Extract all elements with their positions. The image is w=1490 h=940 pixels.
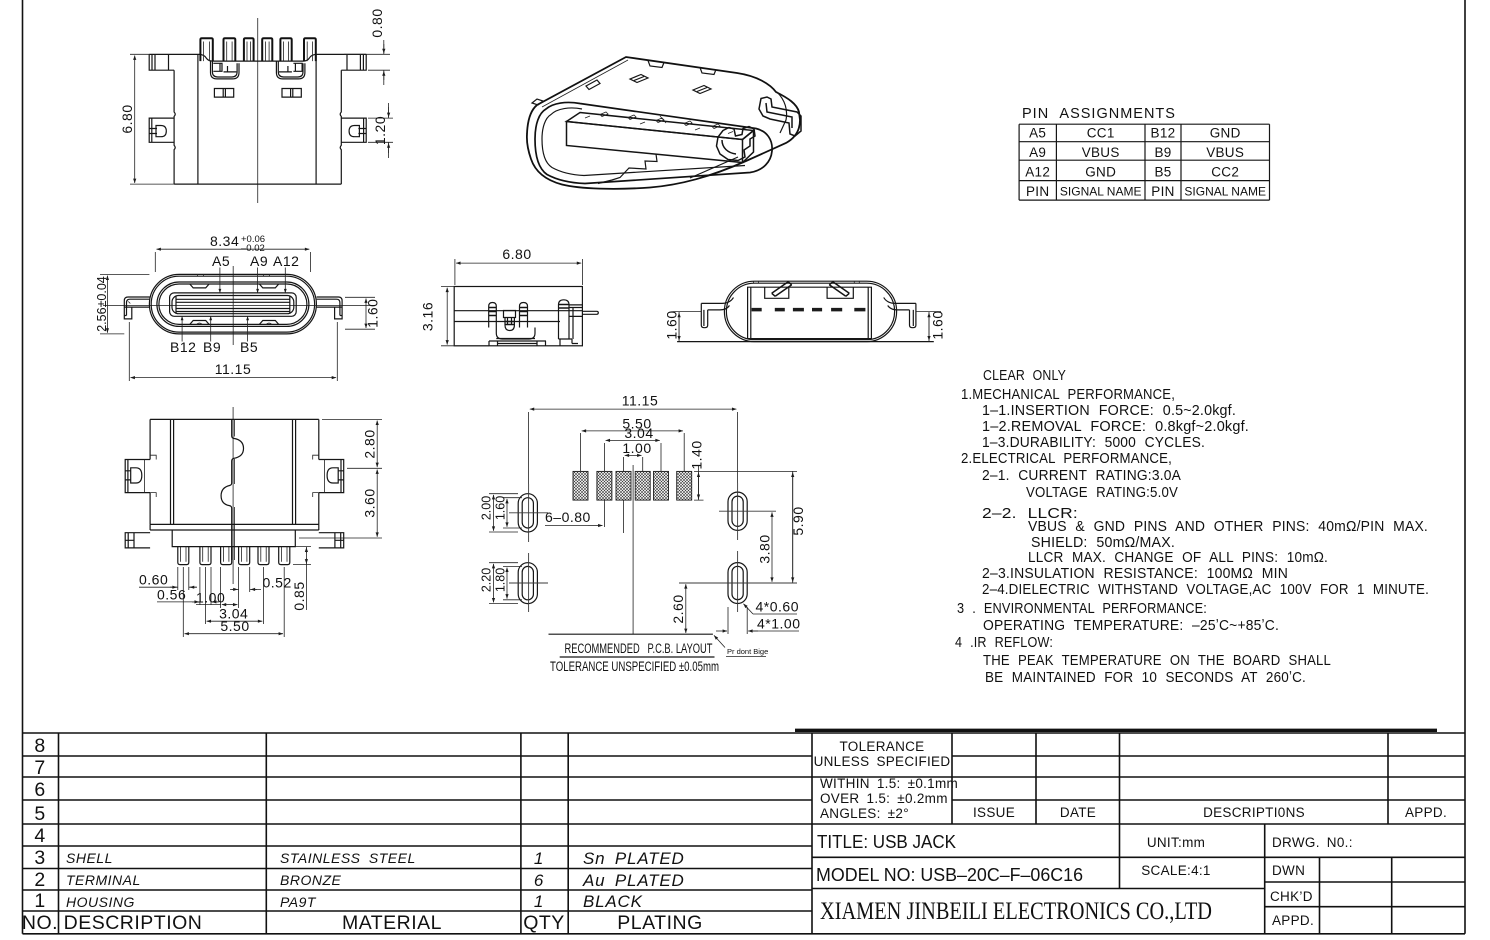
svg-text:PIN: PIN: [1151, 184, 1174, 199]
svg-text:LLCR MAX. CHANGE OF ALL P: LLCR MAX. CHANGE OF ALL PINS: 10mΩ.: [1028, 549, 1328, 566]
svg-text:B9: B9: [203, 339, 221, 355]
svg-text:5: 5: [34, 803, 45, 825]
view A right U-pocket: [276, 61, 305, 79]
svg-text:5.50: 5.50: [220, 618, 249, 634]
view E internal horizontals: [454, 311, 582, 322]
svg-text:OPERATING TEMPERATURE: –25ʼC: OPERATING TEMPERATURE: –25ʼC~+85ʼC.: [983, 617, 1279, 634]
view A teeth inner walls: [204, 42, 313, 62]
hole upper-right: [728, 492, 747, 530]
svg-text:SCALE:4:1: SCALE:4:1: [1141, 863, 1211, 878]
view B top notches: [190, 284, 279, 288]
svg-text:GND: GND: [1210, 126, 1241, 141]
svg-text:A12: A12: [273, 253, 299, 269]
view A outer body edges: [174, 70, 341, 184]
isometric tongue top face: [567, 113, 754, 140]
svg-text:B5: B5: [1154, 165, 1171, 180]
svg-text:11.15: 11.15: [215, 361, 252, 377]
view A centerline: [257, 18, 259, 203]
svg-text:4: 4: [34, 825, 45, 847]
dimension 3.80 (pcb): [771, 512, 773, 581]
svg-text:UNLESS SPECIFIED: UNLESS SPECIFIED: [814, 754, 951, 769]
isometric left cap tab: [532, 99, 543, 105]
svg-text:Au PLATED: Au PLATED: [582, 871, 685, 890]
isometric back edge notch 1: [648, 61, 664, 68]
dimension 2.60 (pcb): [685, 584, 687, 633]
svg-text:PLATING: PLATING: [617, 912, 703, 934]
svg-text:B9: B9: [1154, 145, 1171, 160]
isometric bottom-right inner edge: [690, 157, 738, 178]
svg-text:2–1. CURRENT RATING:3.0A: 2–1. CURRENT RATING:3.0A: [982, 467, 1181, 484]
view C left bottom wing: [125, 533, 150, 548]
sheet frame bottom border: [23, 933, 1466, 935]
dimension 5.50: [183, 567, 284, 637]
view F right notch box: [827, 287, 853, 298]
view A teeth row: [200, 38, 315, 61]
isometric back edge notch 2: [700, 68, 716, 75]
svg-text:NO.: NO.: [22, 912, 58, 934]
svg-text:SHELL: SHELL: [66, 850, 113, 866]
dimension 11.15: [129, 322, 337, 381]
label 6-0.80: [604, 501, 623, 534]
svg-text:DWN: DWN: [1272, 863, 1305, 878]
isometric shell outer outline: [527, 57, 800, 189]
pcb ground line: [549, 633, 713, 635]
svg-text:ISSUE: ISSUE: [973, 805, 1015, 820]
svg-text:6–0.80: 6–0.80: [545, 509, 591, 525]
svg-text:CLEAR ONLY: CLEAR ONLY: [983, 367, 1066, 384]
svg-text:DESCRIPTI0NS: DESCRIPTI0NS: [1203, 805, 1305, 820]
dimension 2.56±0.04: [100, 274, 149, 334]
view E latch base and feet: [489, 339, 546, 346]
svg-text:PIN ASSIGNMENTS: PIN ASSIGNMENTS: [1022, 106, 1176, 122]
svg-text:BLACK: BLACK: [583, 892, 643, 911]
svg-text:APPD.: APPD.: [1405, 805, 1447, 820]
view F left notch box: [765, 287, 789, 298]
svg-text:MATERIAL: MATERIAL: [342, 912, 442, 934]
view A right window: [282, 89, 301, 98]
view B right flange: [317, 297, 343, 319]
dimension 1.00 (pcb): [624, 457, 643, 471]
isometric front rim inner: [542, 108, 745, 176]
svg-text:1–1.INSERTION FORCE: 0.5~2.0: 1–1.INSERTION FORCE: 0.5~2.0kgf.: [982, 402, 1236, 419]
view E body outline: [454, 287, 582, 346]
dimension 1.00: [221, 567, 239, 608]
svg-text:DRWG. N0.:: DRWG. N0.:: [1272, 835, 1353, 850]
isometric top latch window 2: [693, 86, 711, 94]
svg-text:3.16: 3.16: [420, 302, 436, 331]
dimension 6.80 (view E): [455, 259, 583, 285]
svg-text:TITLE: USB JACK: TITLE: USB JACK: [817, 831, 957, 852]
svg-text:APPD.: APPD.: [1272, 913, 1314, 928]
svg-text:5.90: 5.90: [790, 506, 806, 535]
svg-text:BRONZE: BRONZE: [280, 872, 342, 888]
view B left flange: [124, 297, 150, 319]
svg-text:4*1.00: 4*1.00: [757, 616, 800, 632]
view F outer shell stadium: [724, 281, 896, 341]
view A right mounting tab: [341, 54, 366, 70]
isometric tongue front face: [567, 122, 754, 163]
svg-text:–0.02: –0.02: [241, 243, 265, 254]
dimension 0.80: [344, 40, 390, 85]
isometric upper hook: [759, 97, 801, 136]
isometric top latch window 1: [630, 75, 648, 83]
view A inner shell edges: [198, 54, 316, 184]
view B vertical centerline: [232, 266, 234, 345]
svg-text:3 . ENVIRONMENTAL PERFORMANC: 3 . ENVIRONMENTAL PERFORMANCE:: [957, 600, 1207, 617]
svg-text:OVER 1.5: ±0.2mm: OVER 1.5: ±0.2mm: [820, 791, 948, 806]
svg-text:1.60: 1.60: [494, 496, 508, 520]
svg-text:1: 1: [534, 892, 544, 911]
sheet frame left border: [22, 0, 24, 934]
svg-text:3: 3: [34, 847, 45, 869]
svg-text:0.52: 0.52: [263, 575, 292, 591]
svg-text:2–3.INSULATION RESISTANCE: 1: 2–3.INSULATION RESISTANCE: 100MΩ MIN: [982, 565, 1288, 582]
view C shelf band: [150, 524, 319, 530]
view C top edge: [150, 418, 319, 420]
leader to edge note: [714, 635, 725, 647]
view B tongue outline: [170, 293, 297, 316]
view A left U-pocket: [211, 61, 240, 79]
dimension 5.50 (pcb): [581, 433, 685, 471]
view C outer side edges: [150, 419, 319, 524]
view C centre seam: [221, 419, 243, 560]
view F right spring clip: [829, 282, 849, 297]
svg-text:1.60: 1.60: [930, 310, 946, 339]
view E right bracket: [559, 305, 583, 346]
svg-text:2.00: 2.00: [480, 496, 494, 520]
view E right post: [559, 300, 570, 339]
svg-text:STAINLESS STEEL: STAINLESS STEEL: [280, 850, 416, 866]
svg-text:2: 2: [34, 869, 45, 891]
dimension 1.60 (view F right): [916, 312, 941, 342]
hole lower-left: [518, 563, 537, 604]
view C right latch: [319, 460, 344, 493]
svg-text:SIGNAL NAME: SIGNAL NAME: [1184, 185, 1266, 199]
isometric ridge thickness line: [542, 60, 628, 107]
svg-text:1.MECHANICAL PERFORMANCE,: 1.MECHANICAL PERFORMANCE,: [961, 386, 1175, 403]
svg-text:2.56±0.04: 2.56±0.04: [95, 276, 109, 332]
dimension 1.60 (view F left): [673, 312, 702, 342]
view A bottom edge: [174, 183, 341, 185]
view B outer shell stadium S1: [149, 274, 316, 334]
svg-text:B5: B5: [240, 339, 258, 355]
svg-text:6.80: 6.80: [502, 246, 531, 262]
svg-text:A12: A12: [1025, 165, 1050, 180]
svg-text:A9: A9: [250, 253, 268, 269]
dimension 6.80: [130, 54, 174, 184]
dimension 0.52: [249, 567, 251, 592]
hole lower-right: [728, 563, 747, 604]
svg-text:VBUS: VBUS: [1082, 145, 1120, 160]
view C left latch: [125, 460, 150, 493]
svg-text:TERMINAL: TERMINAL: [66, 872, 141, 888]
isometric lower hook: [717, 127, 756, 161]
svg-text:0.85: 0.85: [291, 581, 307, 610]
pin callout B12: [181, 316, 183, 341]
isometric front rim outer: [535, 102, 772, 183]
svg-text:Sn PLATED: Sn PLATED: [583, 849, 685, 868]
svg-text:CC1: CC1: [1087, 126, 1115, 141]
title block grid: vertical rules: [59, 733, 1392, 934]
svg-text:TOLERANCE: TOLERANCE: [840, 739, 925, 754]
view F shell top ticks: [754, 281, 860, 283]
svg-text:CC2: CC2: [1211, 165, 1239, 180]
svg-text:A9: A9: [1029, 145, 1046, 160]
view E latch post A: [489, 303, 497, 328]
svg-text:8.34: 8.34: [210, 233, 239, 249]
svg-text:1.40: 1.40: [689, 440, 705, 469]
svg-text:1.60: 1.60: [664, 310, 680, 339]
dimension 11.15 (pcb): [529, 412, 738, 484]
dimension 0.85: [293, 547, 311, 565]
svg-text:3.60: 3.60: [362, 488, 378, 517]
svg-text:MODEL NO: USB–20C–F–06C16: MODEL NO: USB–20C–F–06C16: [816, 865, 1083, 885]
pin table grid: [1019, 124, 1269, 200]
svg-text:VBUS: VBUS: [1206, 145, 1244, 160]
dimension 0.56: [200, 567, 211, 605]
svg-text:VBUS & GND PINS AND OTHER: VBUS & GND PINS AND OTHER PINS: 40mΩ/PIN…: [1028, 518, 1428, 535]
svg-text:THE PEAK TEMPERATURE ON TH: THE PEAK TEMPERATURE ON THE BOARD SHALL: [983, 652, 1331, 669]
view C base plate: [172, 530, 295, 547]
title block grid: horizontal rules: [23, 733, 1466, 911]
dimension 0.60: [178, 567, 189, 590]
sheet frame right border: [1464, 0, 1466, 934]
isometric tongue pin marks: [585, 112, 733, 134]
pin callout A9: [257, 268, 259, 293]
svg-text:4*0.60: 4*0.60: [756, 599, 799, 615]
svg-text:VOLTAGE RATING:5.0V: VOLTAGE RATING:5.0V: [1026, 484, 1178, 501]
view B top weld ticks: [198, 274, 270, 276]
svg-text:PIN: PIN: [1026, 184, 1049, 199]
view A top edge with recessed middle: [149, 54, 366, 61]
isometric top ridge tab: [586, 80, 600, 90]
svg-text:1.00: 1.00: [196, 590, 225, 606]
svg-text:TOLERANCE UNSPECIFIED ±0.05mm: TOLERANCE UNSPECIFIED ±0.05mm: [550, 659, 719, 674]
view E latch U-pocket: [496, 328, 535, 340]
view E latch post B: [520, 303, 528, 328]
svg-text:QTY: QTY: [523, 912, 565, 934]
svg-text:7: 7: [34, 757, 45, 779]
svg-text:WITHIN 1.5: ±0.1mm: WITHIN 1.5: ±0.1mm: [820, 776, 958, 791]
view E right pin: [582, 311, 598, 314]
view B tongue contact stripes: [176, 297, 290, 314]
dimension 2.80 (right): [322, 419, 382, 468]
svg-text:CHK’D: CHK’D: [1270, 889, 1313, 904]
dimension 2.20 / 1.80 (lower-left hole): [489, 563, 522, 604]
pcb pads (crosshatched): [573, 471, 692, 500]
svg-text:1: 1: [534, 849, 544, 868]
pin callout B9: [210, 316, 212, 341]
svg-text:6: 6: [534, 871, 544, 890]
svg-text:11.15: 11.15: [622, 393, 659, 409]
svg-text:6.80: 6.80: [119, 104, 135, 133]
view C centerline: [232, 407, 234, 584]
svg-text:0.80: 0.80: [369, 8, 385, 37]
svg-text:XIAMEN JINBEILI ELECTRONICS CO: XIAMEN JINBEILI ELECTRONICS CO.,LTD: [820, 896, 1212, 925]
view B horizontal centerline: [103, 304, 375, 306]
svg-text:UNIT:mm: UNIT:mm: [1147, 835, 1205, 850]
pin callout A12: [284, 268, 286, 293]
view F pcb baseline: [677, 341, 934, 343]
dimension 3.04: [205, 567, 263, 624]
isometric right face inner edge: [777, 92, 787, 133]
view A left window: [214, 89, 233, 98]
dimension 5.90 (pcb): [704, 471, 798, 583]
svg-text:DATE: DATE: [1060, 805, 1096, 820]
svg-text:1.20: 1.20: [372, 116, 388, 145]
dimension 1.20: [368, 103, 393, 158]
svg-text:2.ELECTRICAL PERFORMANCE,: 2.ELECTRICAL PERFORMANCE,: [961, 450, 1172, 467]
svg-text:ANGLES: ±2°: ANGLES: ±2°: [820, 806, 909, 821]
view F inner body: [748, 287, 872, 338]
svg-text:2.60: 2.60: [670, 594, 686, 623]
view E latch T-piece: [504, 311, 516, 325]
dimension 8.34 +0.06/-0.02: [155, 252, 310, 272]
view C leg inner walls: [181, 547, 287, 562]
view B bottom notches: [190, 321, 279, 325]
view B shell stadium S3: [157, 282, 309, 326]
svg-text:0.56: 0.56: [157, 587, 186, 603]
view C six legs: [178, 547, 290, 565]
view F right hook: [884, 298, 916, 328]
dimension 2.00 / 1.60 (upper-left hole): [489, 494, 522, 532]
svg-text:1–2.REMOVAL FORCE: 0.8kgf~2.: 1–2.REMOVAL FORCE: 0.8kgf~2.0kgf.: [982, 418, 1249, 435]
dimension 3.60 (right): [299, 537, 382, 539]
view A right side latch: [341, 118, 366, 142]
view F left hook: [701, 298, 733, 328]
hole upper-left: [518, 494, 537, 532]
svg-text:DESCRIPTION: DESCRIPTION: [64, 912, 203, 934]
dimension 1.60 (right): [345, 297, 375, 329]
svg-text:2.80: 2.80: [362, 429, 378, 458]
view A left side latch: [149, 118, 174, 142]
svg-text:2–4.DIELECTRIC WITHSTAND VOL: 2–4.DIELECTRIC WITHSTAND VOLTAGE,AC 100V…: [982, 581, 1429, 598]
svg-text:HOUSING: HOUSING: [66, 894, 135, 910]
view B shell stadium S4: [159, 284, 307, 324]
svg-text:0.60: 0.60: [139, 572, 168, 588]
dimension 3.04 (pcb): [604, 443, 661, 471]
svg-text:8: 8: [34, 735, 45, 757]
svg-text:GND: GND: [1085, 165, 1116, 180]
svg-text:RECOMMENDED P.C.B. LAYOUT: RECOMMENDED P.C.B. LAYOUT: [565, 641, 713, 656]
svg-text:SIGNAL NAME: SIGNAL NAME: [1060, 185, 1142, 199]
view C inner shell edges: [171, 419, 296, 524]
isometric bottom zigzag cutout: [598, 154, 657, 184]
view A left mounting tab: [149, 54, 174, 70]
svg-text:1.60: 1.60: [365, 299, 381, 328]
svg-text:PA9T: PA9T: [280, 894, 317, 910]
svg-text:B12: B12: [1151, 126, 1176, 141]
view C right bottom wing: [319, 533, 344, 548]
pcb centerline: [632, 465, 634, 634]
pin callout A5: [219, 268, 221, 293]
svg-text:1: 1: [34, 890, 45, 912]
svg-text:B12: B12: [170, 339, 196, 355]
svg-text:4 .IR REFLOW:: 4 .IR REFLOW:: [955, 634, 1053, 651]
svg-text:BE MAINTAINED FOR 10 SECON: BE MAINTAINED FOR 10 SECONDS AT 260ʼC.: [985, 669, 1306, 686]
dimension 1.40 (pcb): [694, 466, 704, 500]
view F left spring clip: [772, 282, 792, 297]
pin callout B5: [247, 316, 249, 341]
heavy top rule segment: [795, 729, 1437, 732]
svg-text:Pr dont Bige: Pr dont Bige: [727, 647, 768, 656]
dimension 3.16 (view E): [441, 287, 489, 346]
view F contact dashes: [752, 308, 866, 312]
svg-text:2.20: 2.20: [480, 568, 494, 592]
svg-text:6: 6: [34, 779, 45, 801]
svg-text:3.04: 3.04: [624, 425, 653, 441]
svg-text:3.80: 3.80: [757, 534, 773, 563]
svg-text:1–3.DURABILITY: 5000 CYCLES.: 1–3.DURABILITY: 5000 CYCLES.: [982, 434, 1205, 451]
view B shell stadium S2: [151, 276, 314, 332]
svg-text:1.00: 1.00: [622, 440, 651, 456]
svg-text:A5: A5: [212, 253, 230, 269]
svg-text:1.80: 1.80: [494, 568, 508, 592]
svg-text:A5: A5: [1029, 126, 1046, 141]
